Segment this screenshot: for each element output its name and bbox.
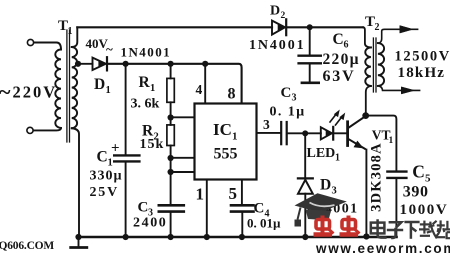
capacitor C3b 0.1u — [280, 122, 282, 144]
wire pin2 — [171, 171, 195, 173]
wire C6 lower lead — [309, 65, 311, 82]
svg-text:www.eeworm.com: www.eeworm.com — [315, 241, 450, 253]
transformer T1 primary winding — [55, 50, 61, 128]
svg-text:1000V: 1000V — [400, 202, 449, 218]
wire rail to T2 primary — [363, 27, 371, 47]
svg-text:C: C — [254, 201, 265, 217]
svg-text:0. 01µ: 0. 01µ — [247, 216, 281, 231]
svg-text:0. 1µ: 0. 1µ — [270, 105, 306, 120]
output arrow bottom — [402, 87, 415, 94]
transistor VT1 collector — [349, 117, 365, 128]
LED1 — [321, 127, 332, 139]
node C1 branch — [123, 61, 129, 67]
svg-text:2: 2 — [281, 11, 286, 21]
svg-text:18kHz: 18kHz — [398, 65, 446, 81]
capacitor C4 — [231, 204, 254, 207]
wire T2 primary bottom to collector node — [366, 86, 371, 113]
wire input bottom — [34, 128, 62, 130]
svg-text:1N4001: 1N4001 — [121, 45, 172, 60]
svg-text:~: ~ — [0, 79, 11, 104]
resistor R1 — [170, 64, 172, 79]
svg-text:220V: 220V — [13, 83, 58, 102]
svg-text:D: D — [94, 76, 105, 93]
svg-text:~: ~ — [106, 42, 113, 57]
wire C1 upper lead — [125, 64, 127, 154]
watermark char zi — [387, 222, 403, 238]
svg-text:C: C — [333, 31, 344, 48]
svg-text:1: 1 — [150, 83, 155, 94]
diode D1 — [93, 58, 106, 70]
svg-text:15k: 15k — [140, 137, 165, 152]
svg-text:1: 1 — [389, 136, 394, 146]
wire emitter to ground — [365, 150, 367, 237]
watermark graduation cap — [295, 193, 347, 213]
wire to C3 — [170, 158, 172, 204]
svg-text:3: 3 — [332, 186, 337, 197]
ground rail nodes — [75, 234, 81, 240]
capacitor C6 — [299, 55, 321, 57]
wire pin4 — [204, 64, 206, 104]
LED1 light arrows — [330, 113, 337, 122]
svg-text:1: 1 — [68, 26, 73, 37]
svg-text:1: 1 — [196, 185, 205, 204]
svg-text:+: + — [111, 141, 120, 157]
transistor VT1 base bar — [346, 122, 349, 146]
svg-text:3DK308A: 3DK308A — [368, 142, 384, 212]
ground symbol — [78, 237, 80, 246]
wire pin3 — [257, 132, 281, 134]
wire C5 lower lead — [395, 179, 397, 235]
svg-text:R: R — [139, 74, 151, 91]
svg-text:Q606.COM: Q606.COM — [0, 240, 54, 252]
wire LED to base — [334, 132, 346, 134]
svg-text:1: 1 — [106, 85, 111, 96]
wire D3 lower lead — [304, 194, 306, 237]
watermark char zai — [419, 221, 437, 239]
input terminal top — [27, 39, 33, 45]
node R2 bottom — [168, 155, 174, 161]
capacitor C3 — [159, 204, 184, 207]
capacitor C5 — [387, 170, 406, 172]
svg-text:3. 6k: 3. 6k — [131, 97, 160, 112]
ground rail — [79, 236, 397, 239]
svg-text:1N4001: 1N4001 — [249, 38, 306, 53]
transformer T2 secondary winding — [378, 43, 384, 86]
wire pin1 — [206, 180, 208, 238]
svg-text:C: C — [138, 200, 149, 216]
wire D3 upper lead — [304, 133, 306, 177]
svg-text:63V: 63V — [323, 68, 356, 85]
transistor VT1 emitter — [349, 139, 365, 148]
resistor R2 — [167, 125, 174, 146]
ground bar C6 — [302, 82, 319, 85]
diode D3 — [298, 177, 313, 179]
svg-text:1: 1 — [108, 158, 113, 169]
svg-text:1: 1 — [335, 153, 340, 164]
watermark bug char 2 — [340, 216, 360, 235]
wire input top — [34, 43, 61, 50]
transformer T1 secondary winding — [72, 47, 77, 128]
svg-text:12500V: 12500V — [395, 49, 450, 65]
svg-text:390: 390 — [403, 184, 429, 201]
wire top rail — [77, 26, 272, 28]
node R1-R2 junction — [168, 114, 174, 120]
svg-text:IC: IC — [213, 120, 232, 139]
node collector T2 — [362, 112, 369, 119]
transformer T1 core — [67, 30, 70, 142]
node trigger — [168, 169, 174, 175]
wire pin7 — [171, 116, 195, 118]
wire pin5 — [241, 180, 243, 204]
svg-text:6: 6 — [344, 40, 349, 51]
svg-text:D: D — [320, 177, 331, 194]
svg-text:T: T — [58, 18, 68, 34]
transformer T2 core — [373, 38, 376, 92]
svg-text:C: C — [412, 162, 425, 182]
wire node to C5 — [366, 116, 397, 171]
capacitor C1 — [114, 154, 139, 156]
svg-text:220µ: 220µ — [323, 51, 360, 68]
svg-text:3: 3 — [292, 93, 297, 104]
svg-text:555: 555 — [214, 146, 238, 163]
svg-text:C: C — [281, 85, 292, 101]
IC1 555 box — [195, 104, 257, 180]
wire D1 to IC rail — [108, 64, 242, 104]
output arrow top — [400, 26, 413, 33]
watermark bug char 1 — [314, 216, 334, 235]
watermark char dian — [371, 219, 387, 237]
svg-text:D: D — [270, 4, 280, 19]
node C6 branch — [307, 24, 313, 30]
svg-text:8: 8 — [228, 86, 236, 103]
svg-text:4: 4 — [196, 82, 203, 97]
watermark char xia — [404, 222, 419, 239]
wire D2 to T2 — [287, 26, 363, 28]
svg-text:C: C — [97, 149, 108, 166]
svg-text:1: 1 — [232, 131, 238, 143]
wire tap to D1 — [78, 63, 93, 65]
svg-text:2: 2 — [375, 22, 380, 33]
wire T1 secondary top to rail — [72, 27, 78, 47]
wire C3 lower lead — [170, 213, 172, 237]
watermark char zhan — [436, 220, 450, 238]
node LED-D3 — [302, 130, 308, 136]
wire C1 lower lead — [125, 163, 127, 238]
svg-text:LED: LED — [307, 146, 336, 161]
wire T2 secondary top lead — [378, 29, 418, 43]
wire C6 upper lead — [309, 27, 311, 54]
input terminal bottom — [27, 127, 33, 133]
diode D2 — [272, 21, 285, 35]
wire pin6 — [171, 157, 195, 159]
svg-text:T: T — [365, 14, 375, 30]
wire C4 lower lead — [241, 213, 243, 237]
svg-text:2400: 2400 — [133, 216, 167, 231]
svg-text:25V: 25V — [90, 185, 120, 200]
node T1 tap — [75, 61, 81, 67]
node R1 branch — [168, 61, 174, 67]
wire C3b to LED — [288, 132, 321, 134]
wire T2 secondary bottom lead — [378, 86, 420, 91]
wire T1 secondary bottom to ground — [72, 128, 79, 237]
transformer T2 primary winding — [365, 47, 371, 86]
svg-text:330µ: 330µ — [90, 169, 123, 184]
node pin4 branch — [202, 61, 208, 67]
svg-text:5: 5 — [229, 184, 238, 203]
